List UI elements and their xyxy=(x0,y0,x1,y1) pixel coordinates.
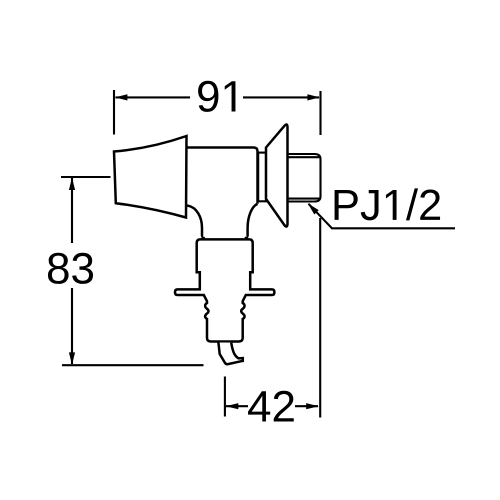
dimension 91: right extension line xyxy=(319,91,321,135)
dimension 83: line xyxy=(71,178,73,364)
valve body cylinder xyxy=(187,148,258,237)
pipe wall hook left xyxy=(202,236,205,238)
dimension 91: line xyxy=(116,96,320,98)
dimension 91: left arrow xyxy=(115,94,128,100)
outlet spout xyxy=(218,343,242,365)
PJ1/2 leader arrow xyxy=(308,203,319,214)
dimension 83: top arrow xyxy=(69,178,75,191)
dimension 42: right arrow (points right) xyxy=(306,403,319,409)
pipe wall hook right xyxy=(245,236,248,238)
dimension 42: left extension line xyxy=(224,377,226,417)
dimension 42: left arrow (points left) xyxy=(226,403,239,409)
dimension 83: top extension line xyxy=(61,176,111,178)
threaded connector PJ1/2 xyxy=(289,154,321,202)
packing ring xyxy=(258,153,266,202)
dimension 42: label xyxy=(248,391,294,422)
dimension 42: right extension line xyxy=(319,218,321,418)
handle knob xyxy=(114,136,187,218)
thread root line top xyxy=(289,156,320,158)
PJ1/2 leader line xyxy=(309,204,456,229)
dimension 83: bottom arrow xyxy=(69,352,75,365)
thread root line bottom xyxy=(289,198,320,200)
dimension 91: label xyxy=(198,81,235,112)
dimension 91: right arrow xyxy=(307,94,320,100)
PJ1/2 label xyxy=(335,188,440,220)
dimension 83: label xyxy=(48,253,93,284)
lower assembly (bonnet, wings, nipple) xyxy=(175,239,274,341)
escutcheon flange cone xyxy=(266,124,288,226)
dimension 91: left extension line xyxy=(113,90,115,135)
dimension 42: line xyxy=(226,405,318,407)
dimension 83: bottom extension line xyxy=(62,364,204,366)
